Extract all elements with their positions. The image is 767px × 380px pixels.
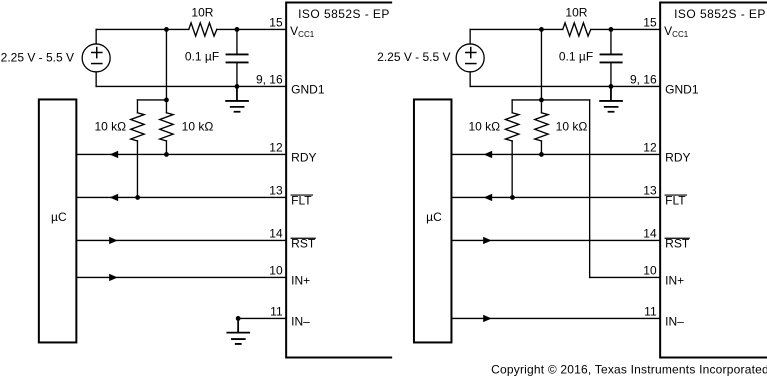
svg-text:Copyright © 2016, Texas Instru: Copyright © 2016, Texas Instruments Inco… — [491, 362, 767, 376]
svg-text:IN–: IN– — [291, 314, 310, 328]
wire R2 bottom lead to FLT — [136, 141, 138, 198]
resistor R1 10R — [189, 23, 217, 36]
svg-text:9, 16: 9, 16 — [256, 72, 283, 86]
wire pull-up bus vertical — [165, 29, 167, 100]
wire pull-up bus vertical right — [540, 29, 542, 100]
wire GND1 rail — [96, 85, 286, 87]
svg-text:VCC1: VCC1 — [290, 24, 315, 39]
svg-text:10: 10 — [643, 263, 657, 277]
svg-text:10R: 10R — [191, 5, 213, 19]
wire capacitor bottom lead right — [610, 62, 612, 86]
wire capacitor bottom lead — [236, 62, 238, 86]
resistor R2 10 kOhm (left) — [131, 113, 144, 141]
svg-text:14: 14 — [643, 226, 657, 240]
node junction dot IN- ground — [236, 316, 241, 321]
pin FLT overline — [291, 194, 312, 196]
wire IN+ right — [590, 276, 661, 278]
svg-text:ISO 5852S - EP: ISO 5852S - EP — [674, 7, 766, 21]
wire R2 top lead — [136, 100, 138, 113]
wire R3 bottom lead — [165, 141, 167, 155]
wire RST right — [451, 239, 660, 241]
svg-text:13: 13 — [269, 183, 283, 197]
wire capacitor top lead — [236, 29, 238, 54]
arrow IN+ to ISO — [109, 274, 118, 281]
wire FLT right — [451, 196, 660, 198]
voltage source V2 (2.25 V - 5.5 V) — [456, 44, 484, 72]
isolator U2 ISO 5852S - EP outline — [286, 2, 391, 357]
arrow RDY to uC right — [484, 151, 493, 158]
node junction dot top rail left (right ckt) — [539, 27, 544, 32]
ground symbol top right — [600, 86, 622, 111]
svg-text:10 kΩ: 10 kΩ — [182, 119, 214, 133]
svg-text:14: 14 — [269, 226, 283, 240]
node junction dot RDY — [164, 152, 169, 157]
capacitor C1 0.1 uF — [226, 54, 247, 62]
node junction dot resistor rail — [164, 98, 169, 103]
pin FLT overline right — [665, 194, 686, 196]
svg-text:IN+: IN+ — [665, 273, 684, 287]
svg-text:ISO 5852S - EP: ISO 5852S - EP — [298, 7, 390, 21]
node junction dot FLT right — [510, 195, 515, 200]
resistor R3 10 kOhm (right) — [165, 100, 167, 113]
wire R5 bottom lead to FLT right — [511, 141, 513, 198]
svg-text:2.25 V - 5.5 V: 2.25 V - 5.5 V — [377, 50, 450, 64]
wire GND1 rail right — [470, 85, 660, 87]
pin RST overline right — [665, 237, 689, 239]
wire IN+ riser vertical — [589, 100, 591, 278]
resistor R6 10 kOhm (right of right ckt) — [540, 100, 542, 113]
arrow RDY to uC — [110, 151, 119, 158]
microcontroller U3 — [414, 99, 452, 342]
wire R6 bottom lead — [540, 141, 542, 155]
svg-text:FLT: FLT — [665, 194, 686, 208]
svg-text:FLT: FLT — [291, 194, 312, 208]
wire FLT — [76, 196, 286, 198]
svg-text:VCC1: VCC1 — [664, 24, 689, 39]
svg-text:RDY: RDY — [665, 150, 690, 164]
node junction dot top rail right — [235, 27, 240, 32]
wire RDY right — [451, 153, 660, 155]
svg-text:15: 15 — [643, 15, 657, 29]
svg-text:12: 12 — [269, 140, 283, 154]
svg-text:10 kΩ: 10 kΩ — [556, 119, 588, 133]
svg-text:10 kΩ: 10 kΩ — [94, 119, 126, 133]
wire R5 top lead — [511, 100, 513, 113]
svg-text:10 kΩ: 10 kΩ — [468, 119, 500, 133]
voltage source V1 (2.25 V - 5.5 V) — [82, 44, 110, 72]
svg-text:11: 11 — [644, 304, 657, 318]
arrow RST to ISO right — [483, 237, 492, 244]
microcontroller U1 — [39, 99, 76, 342]
resistor R4 10R — [563, 23, 591, 36]
svg-text:11: 11 — [270, 304, 283, 318]
svg-text:GND1: GND1 — [291, 82, 325, 96]
pin RST overline — [291, 237, 315, 239]
node junction dot GND1 rail — [235, 84, 240, 89]
V2 plus sign — [466, 48, 476, 58]
wire resistor rail horizontal right — [512, 99, 590, 101]
svg-text:12: 12 — [643, 140, 657, 154]
svg-text:13: 13 — [643, 183, 657, 197]
arrow IN- to ISO right — [483, 315, 492, 322]
wire V2 top lead — [469, 29, 471, 44]
svg-text:RDY: RDY — [291, 150, 316, 164]
node junction dot GND1 rail right — [609, 84, 614, 89]
wire IN- — [238, 317, 286, 319]
svg-text:GND1: GND1 — [665, 82, 699, 96]
node junction dot top rail left — [164, 27, 169, 32]
wire IN+ — [76, 276, 286, 278]
ground symbol IN- — [227, 318, 249, 344]
V2 minus sign — [466, 63, 476, 65]
svg-text:0.1 µF: 0.1 µF — [559, 49, 593, 63]
wire V1 top lead — [95, 29, 97, 44]
resistor R5 10 kOhm (left of right ckt) — [505, 113, 518, 141]
V1 plus sign — [92, 48, 102, 58]
wire V1 bottom lead — [95, 72, 97, 87]
svg-text:0.1 µF: 0.1 µF — [185, 49, 219, 63]
svg-text:µC: µC — [426, 210, 442, 224]
svg-text:IN+: IN+ — [291, 273, 310, 287]
svg-text:IN–: IN– — [665, 314, 684, 328]
wire top rail VCC1 — [96, 28, 286, 30]
wire RDY — [76, 153, 286, 155]
wire IN- right — [451, 317, 660, 319]
svg-text:µC: µC — [51, 210, 67, 224]
wire top rail VCC1 right — [470, 28, 660, 30]
node junction dot top rail right (right ckt) — [609, 27, 614, 32]
arrow FLT to uC right — [484, 194, 493, 201]
node junction dot RDY right — [539, 152, 544, 157]
ground symbol top — [226, 86, 248, 111]
capacitor C2 0.1 uF — [600, 54, 621, 62]
wire resistor rail horizontal — [137, 99, 166, 101]
arrow FLT to uC — [110, 194, 119, 201]
svg-text:10: 10 — [269, 263, 283, 277]
svg-text:9, 16: 9, 16 — [630, 72, 657, 86]
V1 minus sign — [92, 63, 102, 65]
node junction dot resistor rail right — [539, 98, 544, 103]
node junction dot FLT — [135, 195, 140, 200]
isolator U4 ISO 5852S - EP outline — [660, 2, 767, 357]
svg-text:15: 15 — [269, 15, 283, 29]
wire capacitor top lead right — [610, 29, 612, 54]
svg-text:10R: 10R — [565, 5, 587, 19]
arrow RST to ISO — [109, 237, 118, 244]
svg-text:2.25 V - 5.5 V: 2.25 V - 5.5 V — [1, 50, 74, 64]
wire RST — [76, 239, 286, 241]
wire V2 bottom lead — [469, 72, 471, 87]
